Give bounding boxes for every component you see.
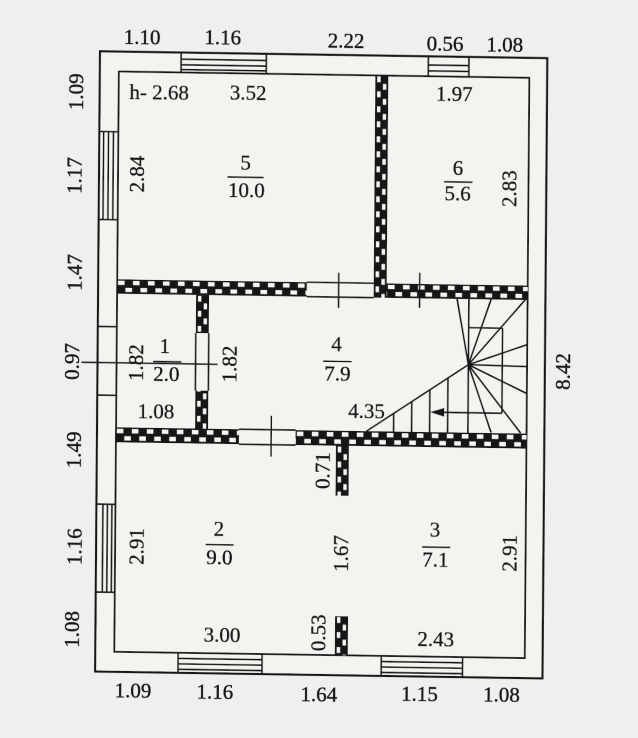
svg-text:3: 3 (430, 518, 441, 542)
svg-text:h- 2.68: h- 2.68 (129, 80, 189, 105)
svg-text:1.17: 1.17 (62, 157, 86, 194)
svg-text:2.43: 2.43 (417, 627, 454, 652)
svg-text:2.0: 2.0 (153, 362, 179, 386)
svg-text:1.09: 1.09 (64, 73, 88, 110)
svg-text:1.09: 1.09 (115, 679, 152, 704)
svg-text:0.56: 0.56 (427, 31, 464, 56)
svg-text:7.9: 7.9 (324, 362, 350, 386)
svg-text:3.52: 3.52 (230, 80, 267, 105)
svg-text:2.91: 2.91 (498, 535, 522, 572)
svg-text:1.08: 1.08 (137, 399, 174, 424)
svg-text:4.35: 4.35 (348, 399, 385, 424)
svg-text:2.83: 2.83 (497, 170, 521, 207)
svg-text:9.0: 9.0 (206, 545, 232, 569)
svg-text:2.22: 2.22 (328, 29, 365, 54)
svg-text:1.08: 1.08 (483, 682, 520, 707)
svg-text:1.15: 1.15 (401, 682, 438, 707)
svg-text:1: 1 (159, 334, 170, 358)
svg-text:1.16: 1.16 (63, 528, 87, 565)
svg-text:1.97: 1.97 (436, 82, 473, 107)
svg-text:0.71: 0.71 (310, 452, 334, 489)
svg-text:3.00: 3.00 (204, 623, 241, 648)
svg-text:1.16: 1.16 (196, 680, 233, 705)
svg-text:7.1: 7.1 (422, 548, 448, 572)
svg-text:1.08: 1.08 (486, 32, 523, 57)
svg-text:1.82: 1.82 (124, 344, 148, 381)
svg-text:2: 2 (214, 517, 225, 541)
svg-text:1.10: 1.10 (124, 25, 161, 50)
svg-text:4: 4 (331, 332, 342, 356)
svg-text:1.64: 1.64 (300, 682, 337, 707)
svg-text:6: 6 (453, 156, 464, 180)
svg-text:1.67: 1.67 (329, 535, 353, 572)
svg-text:8.42: 8.42 (551, 353, 575, 390)
svg-text:0.53: 0.53 (307, 614, 331, 651)
svg-text:2.91: 2.91 (124, 528, 148, 565)
svg-text:1.49: 1.49 (62, 431, 86, 468)
svg-text:1.82: 1.82 (218, 345, 242, 382)
svg-text:1.08: 1.08 (60, 611, 84, 648)
svg-text:10.0: 10.0 (228, 178, 265, 203)
svg-text:5.6: 5.6 (444, 182, 470, 206)
svg-text:0.97: 0.97 (60, 343, 84, 380)
svg-text:1.47: 1.47 (63, 254, 87, 291)
svg-text:2.84: 2.84 (125, 155, 149, 193)
svg-text:5: 5 (240, 151, 251, 175)
svg-text:1.16: 1.16 (204, 25, 241, 50)
